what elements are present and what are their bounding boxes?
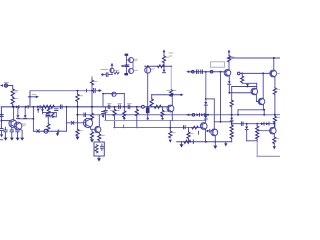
- circle sym S3: [210, 70, 213, 73]
- wire y140.8: [247, 140, 258, 142]
- transistor Q13: [211, 129, 218, 136]
- diode D15: [245, 127, 248, 141]
- ground gnd2: [10, 138, 14, 141]
- node R40 bus: [77, 106, 79, 108]
- wire y121.8: [214, 121, 231, 123]
- wire fb col: [47, 117, 49, 124]
- wire Q8 collector: [171, 95, 173, 106]
- transistor Q1: [9, 120, 17, 128]
- wire R2 to bus: [12, 104, 14, 107]
- wire x214.3: [213, 99, 215, 129]
- node R20 rail: [169, 127, 171, 129]
- node R12 dot: [123, 117, 125, 119]
- resistor R6 fb: [51, 113, 54, 117]
- diode D12: [261, 122, 264, 125]
- wire R26 down: [228, 62, 230, 70]
- wire x92 long: [91, 77, 93, 120]
- arrow down A7: [273, 146, 276, 149]
- tick rail end: [57, 130, 59, 133]
- capacitor C27 tick: [192, 140, 194, 144]
- connector J1 input: [0, 83, 9, 88]
- capacitor C30 subrail: [184, 126, 186, 129]
- node R13 bus: [114, 106, 116, 108]
- arrow vas end: [181, 94, 184, 97]
- diode D13: [266, 122, 269, 125]
- node Q13 emitter rail: [214, 141, 216, 143]
- ground gnd7: [97, 158, 101, 161]
- node y73.4 x263.2: [262, 72, 264, 74]
- resistor R32: [273, 116, 279, 123]
- label Q2: [22, 124, 25, 126]
- ground stub lower: [0, 139, 3, 141]
- resistor R28: [230, 125, 233, 132]
- wire y73.4: [240, 72, 271, 74]
- node Q8 coll: [171, 94, 173, 96]
- label R1: [15, 91, 18, 93]
- blob C23: [125, 54, 129, 56]
- label net V2: [169, 53, 173, 56]
- wire bias line: [189, 71, 226, 73]
- ground gnd9: [180, 144, 184, 147]
- wire x238 stub: [237, 110, 239, 115]
- diode D5: [196, 113, 199, 116]
- wire x151.7 down: [151, 95, 153, 99]
- resistor R31: [273, 88, 279, 95]
- wire x66.5 vertical: [66, 107, 68, 131]
- wire low rail: [177, 141, 232, 143]
- wire x264.2 stub: [263, 110, 265, 115]
- wire Q8 emitter: [171, 112, 173, 121]
- resistor R34: [256, 133, 259, 140]
- ground gnd8: [213, 146, 217, 149]
- node x231.7 y123.7: [231, 123, 233, 125]
- wire Q14 emitter: [228, 76, 230, 81]
- resistor R9: [90, 130, 96, 138]
- wire y66: [145, 65, 172, 67]
- node in dot: [101, 73, 103, 75]
- wire x256.7 top: [256, 83, 258, 88]
- wire x103 down: [102, 94, 104, 107]
- wire C6 gnd: [11, 127, 13, 137]
- tick pre Q19: [198, 131, 200, 134]
- wire y109.8: [238, 109, 264, 111]
- wire R34 down2: [256, 141, 258, 157]
- wire Q5 collector: [98, 115, 100, 127]
- node R19: [170, 94, 172, 96]
- label C21: [128, 102, 132, 104]
- node x264.2 y109.8: [263, 109, 265, 111]
- ground arrow R20: [169, 140, 172, 143]
- ground gnd4: [20, 138, 24, 141]
- diode D16 collector: [16, 107, 19, 119]
- label Q10: [134, 59, 138, 61]
- wire x171 light: [170, 66, 172, 90]
- resistor R20: [169, 121, 176, 138]
- wire Q13 emitter: [214, 136, 216, 146]
- capacitor C1: [0, 115, 3, 117]
- wire Q19 collector: [204, 119, 206, 123]
- capacitor C14 X: [37, 130, 40, 133]
- wire Q17 emitter: [274, 77, 276, 88]
- node y66-x164: [163, 65, 165, 67]
- wire x205.8 vertical: [205, 72, 207, 102]
- diode D6: [201, 113, 204, 116]
- node R40 lightbus: [77, 90, 79, 92]
- capacitor C11 on bus: [60, 105, 62, 109]
- label C26: [101, 69, 108, 71]
- wire C7 gnd: [17, 130, 19, 138]
- diode D1 drop: [41, 109, 44, 113]
- wire fb edges: [43, 113, 57, 117]
- capacitor C29 on bias: [201, 70, 203, 74]
- node D11: [247, 86, 249, 88]
- resistor R23 ticks: [114, 72, 119, 74]
- rect loop: [211, 62, 225, 67]
- wire Q16 collector: [262, 73, 264, 98]
- transistor Q14: [224, 70, 231, 77]
- diode D2 down: [56, 131, 59, 136]
- wire top bus: [229, 57, 280, 59]
- wire x242.2: [241, 73, 243, 76]
- transistor Q9: [110, 68, 114, 74]
- wire mid rail: [77, 114, 281, 116]
- node x273.8 bus: [273, 57, 275, 59]
- transistor Q18: [270, 127, 277, 134]
- circle sym S1: [192, 114, 195, 117]
- wire out rail: [257, 155, 280, 157]
- node x124.3 bus: [123, 106, 125, 108]
- capacitor C16: [102, 112, 105, 118]
- capacitor C22 blob: [146, 107, 150, 120]
- wire main bus: [1, 106, 168, 108]
- resistor R19: [167, 90, 176, 97]
- capacitor D14 bars: [241, 122, 243, 126]
- capacitor C6: [10, 130, 13, 132]
- node x66.5 bus: [66, 106, 68, 108]
- wire Q4 collector: [91, 118, 92, 120]
- resistor R2: [11, 97, 14, 104]
- source circle B1: [44, 129, 48, 133]
- transistor Q16: [258, 98, 265, 105]
- wire x30 vertical: [29, 91, 31, 107]
- resistor R3 on bus: [42, 105, 48, 108]
- node arrow-vert: [29, 96, 31, 98]
- resistor R25: [184, 140, 191, 143]
- wire Q4 emitter to Q5: [91, 127, 96, 129]
- wire lower rail: [33, 130, 59, 132]
- capacitor C9 on light bus: [94, 89, 96, 93]
- node base line: [228, 92, 230, 94]
- resistor R10: [98, 133, 105, 142]
- wire R35 down: [273, 144, 275, 147]
- diode D20 series: [37, 105, 40, 108]
- resistor R30: [241, 76, 244, 83]
- node y121.8 x220.5: [220, 121, 222, 123]
- transistor Q17: [270, 70, 277, 77]
- resistor R22: [162, 56, 169, 63]
- node x238: [237, 114, 239, 116]
- arrow up A2: [111, 63, 114, 68]
- wire y123.7: [232, 123, 275, 125]
- diode D21: [205, 130, 213, 133]
- wire rail ext: [60, 130, 67, 132]
- diode D9: [228, 81, 231, 93]
- capacitor C28 on bias: [197, 70, 199, 74]
- resistor R27: [230, 100, 233, 107]
- diode D18 series: [16, 105, 19, 108]
- wire R30 down: [242, 82, 257, 85]
- wire R34 down: [256, 139, 258, 141]
- resistor R21: [158, 65, 164, 68]
- transistor Q11: [129, 69, 134, 74]
- node Q1 coll bus: [13, 106, 15, 108]
- ground gnd1: [4, 138, 8, 141]
- wire Q17 stub right: [277, 73, 280, 75]
- capacitor C7: [16, 130, 19, 132]
- arrow left A4: [121, 65, 128, 67]
- box load: [94, 142, 104, 156]
- wire y98.9: [206, 98, 215, 100]
- wire Q2 emitter down: [20, 129, 22, 137]
- wire R7 to rail: [47, 130, 49, 133]
- tick sub rail: [123, 125, 125, 128]
- arrow bias left: [186, 114, 189, 117]
- wire Q19 emitter: [204, 129, 206, 142]
- capacitor C5: [4, 130, 7, 132]
- wire x273.8 top: [273, 58, 275, 70]
- wire mirror right: [132, 62, 134, 70]
- blob C24: [124, 73, 128, 75]
- wire base Q1: [1, 120, 11, 122]
- node R15 bus: [136, 106, 138, 108]
- diode D11: [246, 84, 249, 87]
- tick on light bus: [86, 89, 88, 92]
- wire fb row2: [46, 116, 56, 118]
- wire bias stub: [189, 114, 192, 116]
- wire R32 down: [274, 123, 276, 128]
- arrow up A6: [228, 50, 231, 56]
- node y73.4 x242.2: [241, 73, 243, 75]
- wire collector join: [18, 118, 34, 120]
- node x33.4: [33, 106, 35, 108]
- transistor Q2: [14, 122, 22, 130]
- wire x220.5 long: [220, 72, 222, 122]
- wire y86.5: [232, 86, 257, 88]
- wire box gnd: [98, 156, 100, 158]
- wire Q16 emitter: [262, 105, 264, 110]
- diode D8: [204, 116, 207, 119]
- node Q18 coll: [273, 123, 275, 125]
- label Q9: [115, 70, 118, 72]
- transistor Q4: [83, 118, 92, 127]
- diode D7: [204, 102, 207, 115]
- label C20: [118, 102, 122, 104]
- transistor Q15: [251, 88, 258, 95]
- transistor Q19: [200, 123, 207, 130]
- wire light bus vplus: [30, 90, 101, 92]
- capacitor C19 bus: [108, 105, 110, 109]
- resistor R8: [76, 115, 83, 136]
- node x231.7 rail: [231, 114, 233, 116]
- node x205.8 y98.9: [205, 98, 207, 100]
- resistor R33: [256, 124, 259, 133]
- wire R31 down: [274, 94, 276, 115]
- diode D4: [163, 70, 166, 73]
- node x33.4 y118.8: [33, 118, 35, 120]
- wire gnd stub: [181, 142, 183, 144]
- node R8 top: [77, 114, 79, 116]
- wire Q18 collector: [273, 124, 275, 128]
- node vas left: [102, 93, 104, 95]
- capacitor C1b: [0, 129, 3, 131]
- wire R22 node: [163, 63, 165, 70]
- circle sym S2: [192, 70, 195, 73]
- wire x124.3: [123, 94, 125, 111]
- resistor R7: [47, 124, 50, 131]
- transistor Q10: [126, 58, 133, 63]
- resistor R17: [150, 99, 153, 106]
- resistor R16: [161, 107, 168, 120]
- capacitor D3 bars: [125, 65, 129, 67]
- wire R1-R2: [12, 96, 14, 97]
- label Q11: [134, 69, 137, 71]
- transistor Q6: [112, 92, 116, 96]
- capacitor C17: [84, 113, 86, 117]
- label C19: [108, 102, 112, 104]
- wire base Q4: [67, 122, 86, 124]
- wire R17 bus: [151, 105, 153, 108]
- resistor R13: [111, 107, 120, 128]
- node base Q1: [1, 120, 3, 122]
- capacitor C25 drop: [104, 107, 107, 121]
- node light bus end: [98, 89, 100, 91]
- node tap below D20: [37, 108, 39, 112]
- resistor R37: [90, 113, 96, 120]
- wire x33.4 vertical: [32, 107, 34, 131]
- arrow up A3: [163, 49, 166, 55]
- wire J1 to R1: [8, 86, 13, 90]
- wire mirror left: [125, 56, 127, 73]
- resistor R40 vertical: [76, 91, 83, 115]
- circle sym S5 on bus: [142, 105, 145, 108]
- wire left rail down: [0, 107, 2, 129]
- resistor R35: [273, 137, 279, 144]
- ground gnd3: [16, 138, 20, 141]
- resistor R36: [90, 80, 96, 85]
- wire Q15 emitter to Q16: [256, 95, 259, 102]
- wire vas top: [103, 93, 124, 95]
- capacitor C26: [104, 73, 113, 77]
- node diode string: [207, 114, 209, 116]
- node x92 lightbus: [91, 90, 93, 92]
- arrow feedback: [28, 94, 39, 98]
- resistor R4 on bus: [48, 105, 54, 108]
- resistor R18 on bus: [154, 105, 161, 108]
- ground gnd5: [76, 137, 80, 140]
- wire base line q15: [229, 92, 252, 94]
- node x92 bus: [91, 106, 93, 108]
- wire left rail low: [0, 130, 2, 134]
- capacitor C20 bus: [119, 105, 121, 109]
- resistor R39 drop: [187, 128, 193, 142]
- diode D10: [230, 118, 233, 125]
- wire vas mid: [152, 94, 181, 96]
- resistor R15: [135, 107, 138, 128]
- wire fb row1: [43, 112, 57, 114]
- node bias x220.5: [220, 71, 222, 73]
- wire Q1 collector top: [13, 107, 15, 120]
- node x264.2: [263, 114, 265, 116]
- wire x246.7: [246, 124, 248, 127]
- wire sub rail: [114, 127, 202, 129]
- capacitor C15 X: [71, 121, 74, 124]
- node R31 rail: [274, 114, 276, 116]
- wire R29 end: [231, 138, 233, 141]
- capacitor C12 drop: [55, 109, 58, 111]
- wire light rail: [105, 120, 206, 122]
- ground left rail: [0, 134, 3, 137]
- capacitor C13 fb: [47, 114, 50, 116]
- resistor R38 subrail: [192, 126, 198, 129]
- wire C5 gnd: [4, 127, 6, 137]
- diode D17 collector: [24, 107, 27, 119]
- node y123.7 x257.2: [256, 123, 258, 125]
- ground arrow A5: [224, 142, 227, 147]
- transistor Q8: [167, 105, 174, 112]
- wire R27 down: [231, 107, 233, 118]
- node x205.8 top: [205, 71, 207, 73]
- node y123.7 x246.7: [246, 123, 248, 125]
- wire Q12 down: [147, 73, 149, 107]
- node y66-Q12: [147, 65, 149, 67]
- resistor R12: [123, 111, 126, 118]
- wire Q18 emitter: [273, 134, 275, 137]
- resistor R5 drop: [47, 108, 50, 114]
- node bus-R2: [12, 106, 14, 108]
- resistor R29: [230, 132, 233, 139]
- circle sym S4: [237, 72, 240, 75]
- transistor Q5: [95, 126, 101, 132]
- ground gnd6: [90, 139, 94, 142]
- capacitor C21 bus: [128, 105, 130, 109]
- source Q12 circle: [145, 66, 151, 73]
- resistor R11 in box: [95, 145, 98, 153]
- capacitor C18 in box: [100, 144, 103, 151]
- wire base Q18: [257, 130, 271, 132]
- node D8 rail: [205, 114, 207, 116]
- node low rail: [205, 141, 207, 143]
- resistor R1: [11, 89, 14, 96]
- wire x231.7 chain: [231, 87, 233, 101]
- label Q12: [151, 68, 154, 70]
- label R2: [15, 98, 18, 100]
- diode D19 series: [25, 105, 28, 108]
- node C22 bus: [147, 106, 149, 108]
- arrow bias line end: [186, 70, 189, 73]
- resistor R26: [227, 56, 234, 63]
